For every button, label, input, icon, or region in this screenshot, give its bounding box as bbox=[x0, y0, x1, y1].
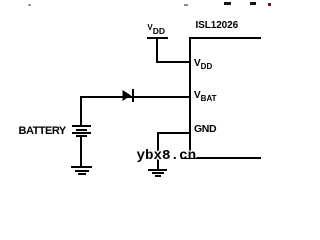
diode D1 bbox=[121, 88, 135, 103]
wire battery top vertical bbox=[80, 96, 82, 126]
ground (battery) bbox=[0, 0, 1, 1]
stray mark bbox=[250, 2, 256, 5]
wire VBAT net (battery to IC) bbox=[80, 96, 189, 98]
stray mark bbox=[184, 4, 188, 6]
IC U1 ISL12026 left edge bbox=[189, 37, 191, 158]
stray mark bbox=[268, 3, 271, 6]
pin label GND bbox=[194, 124, 216, 135]
watermark ybx8.cn bbox=[137, 149, 197, 163]
stray mark bbox=[28, 4, 31, 6]
supply rail VDD bar bbox=[147, 37, 169, 39]
wire strikethrough over watermark bbox=[181, 158, 198, 160]
wire GND vertical bbox=[157, 132, 159, 169]
wire VDD pin horizontal bbox=[156, 61, 190, 63]
pin label VDD bbox=[194, 59, 212, 69]
supply label VDD bbox=[147, 24, 165, 32]
IC U1 ISL12026 bottom edge bbox=[189, 157, 261, 159]
label BATTERY bbox=[19, 126, 66, 137]
wire battery bottom vertical bbox=[80, 137, 82, 166]
battery BT1 bbox=[0, 0, 1, 1]
stray mark bbox=[224, 2, 231, 5]
IC U1 ISL12026 top edge bbox=[189, 37, 261, 39]
label ISL12026 bbox=[196, 21, 239, 31]
pin label VBAT bbox=[194, 91, 217, 101]
wire GND pin horizontal bbox=[157, 132, 190, 134]
ground (GND pin) bbox=[0, 0, 1, 1]
wire VDD vertical bbox=[156, 37, 158, 63]
